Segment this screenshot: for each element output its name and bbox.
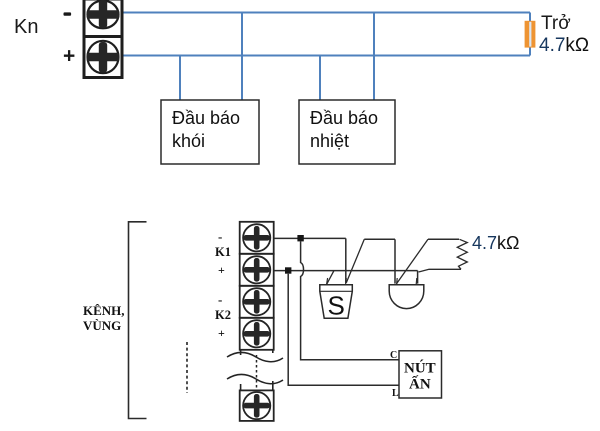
terminal strip K1/K2 screw 4	[240, 318, 274, 350]
junction on - wire	[297, 235, 303, 241]
svg-text:NÚT: NÚT	[404, 360, 436, 377]
wire K1+ line (horizontal)	[274, 270, 418, 272]
resistor Trở (EOL, orange body)	[525, 21, 536, 48]
wire drop - to smoke box	[241, 13, 243, 101]
svg-text:Kn: Kn	[14, 16, 38, 38]
svg-text:+: +	[218, 326, 225, 340]
wire drop + to heat box	[319, 56, 321, 101]
heat detector (dome)	[389, 278, 424, 309]
svg-text:khói: khói	[172, 131, 205, 151]
terminal strip K1/K2 screw 1	[240, 222, 274, 254]
svg-text:Trở: Trở	[541, 13, 571, 34]
svg-text:+: +	[218, 263, 225, 277]
svg-text:ẤN: ẤN	[409, 376, 431, 393]
heat detector box Đầu báo nhiệt	[299, 100, 395, 164]
smoke detector S	[320, 278, 353, 321]
wire drop - to heat box	[373, 13, 375, 101]
svg-text:-: -	[218, 229, 222, 244]
wire junction to NÚT ẤN L	[288, 274, 399, 386]
label KÊNH, VÙNG	[83, 303, 125, 333]
svg-text:L: L	[392, 388, 399, 399]
wire diagonal heat left terminal up	[397, 239, 428, 283]
wire drop to heat right terminal	[417, 271, 419, 284]
break symbol wavy line 1	[227, 352, 283, 361]
junction on + wire	[285, 267, 291, 273]
wire junction to NÚT ẤN C (with hop)	[301, 241, 399, 359]
wire segment to resistor top	[428, 238, 459, 240]
terminal strip K1/K2 screw 5	[240, 390, 274, 421]
svg-text:Đầu báo: Đầu báo	[172, 108, 240, 128]
wire drop to heat left terminal	[394, 239, 396, 283]
svg-text:VÙNG: VÙNG	[83, 318, 121, 333]
wire drop + to smoke box	[179, 56, 181, 101]
resistor R 4.7kΩ (zigzag EOL)	[457, 239, 467, 269]
svg-text:S: S	[328, 291, 345, 321]
break symbol wavy line 2	[227, 374, 283, 383]
terminal strip break stubs	[241, 350, 273, 391]
svg-text:Đầu báo: Đầu báo	[310, 108, 378, 128]
dotted continuation line (strip)	[256, 355, 258, 388]
wire diagonal + to S left terminal	[327, 271, 334, 285]
svg-text:-: -	[218, 292, 222, 307]
wire + line (bottom, blue)	[122, 55, 530, 57]
svg-text:K2: K2	[215, 308, 231, 322]
terminal block Kn	[84, 0, 122, 78]
terminal strip K1/K2 screw 3	[240, 286, 274, 318]
svg-text:+: +	[63, 45, 75, 68]
wire drop to smoke S right terminal	[345, 238, 347, 282]
wire diagonal S right terminal up	[346, 239, 364, 282]
dotted continuation line (left of strip)	[186, 342, 188, 393]
wire resistor bottom return	[419, 269, 461, 272]
svg-text:4.7kΩ: 4.7kΩ	[472, 233, 520, 253]
push button box NÚT ẤN	[399, 351, 442, 398]
svg-text:C: C	[390, 350, 397, 361]
bracket KÊNH/VÙNG	[129, 222, 147, 419]
smoke detector box Đầu báo khói	[161, 100, 259, 164]
svg-text:nhiệt: nhiệt	[310, 131, 349, 151]
pin label - (Kn)	[64, 12, 72, 15]
svg-text:4.7kΩ: 4.7kΩ	[539, 35, 589, 56]
svg-text:K1: K1	[215, 245, 231, 259]
wire K1- to EOL (horizontal)	[274, 237, 346, 239]
terminal strip K1/K2 screw 2	[240, 254, 274, 286]
wire - line (top, blue)	[122, 12, 530, 14]
svg-text:KÊNH,: KÊNH,	[83, 303, 125, 318]
wire EOL resistor vertical	[529, 13, 531, 56]
wire segment to heat drop	[364, 238, 395, 240]
